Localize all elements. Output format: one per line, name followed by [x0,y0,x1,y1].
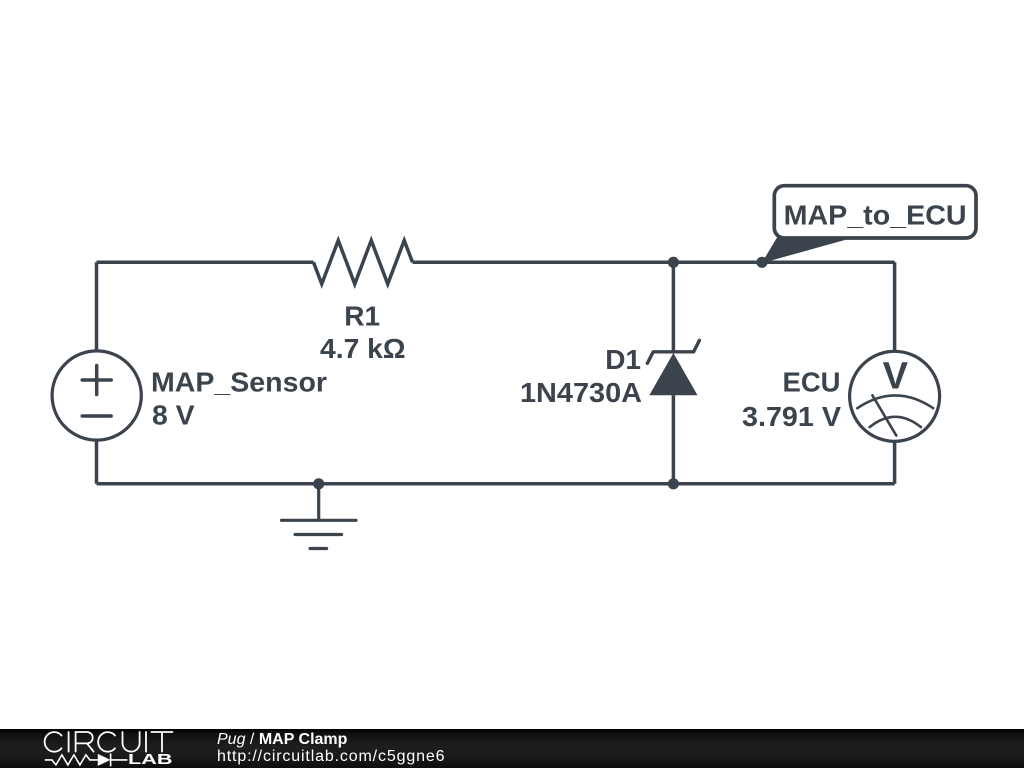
svg-text:4.7 kΩ: 4.7 kΩ [320,333,406,364]
svg-text:R1: R1 [344,301,380,332]
svg-text:1N4730A: 1N4730A [520,377,642,408]
svg-text:8 V: 8 V [152,399,195,430]
svg-text:D1: D1 [605,344,641,375]
svg-text:3.791 V: 3.791 V [742,401,841,432]
svg-text:LAB: LAB [128,751,173,768]
svg-text:ECU: ECU [783,366,841,397]
svg-text:MAP_Sensor: MAP_Sensor [151,366,327,397]
svg-text:V: V [883,355,909,397]
svg-text:MAP_to_ECU: MAP_to_ECU [784,200,967,231]
